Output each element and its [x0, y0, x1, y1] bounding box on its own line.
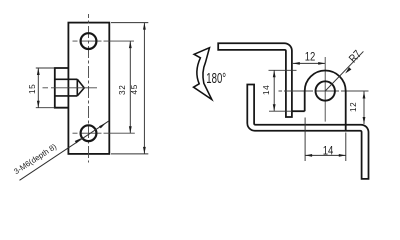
svg-text:32: 32: [118, 85, 127, 95]
lobe vertical centerline: [324, 57, 326, 122]
dim 12 top line: [293, 62, 325, 64]
lobe hole: [316, 81, 335, 100]
dim 14 bottom arrows: [305, 154, 346, 157]
top hole: [81, 33, 97, 49]
short leg under lobe left: [292, 110, 305, 112]
dim 12 top arrows: [293, 62, 325, 65]
main bracket: left strip with cap, bottom leg, right bend strip with cap: [247, 85, 368, 179]
svg-text:45: 45: [130, 84, 139, 94]
dim 15 arrows: [37, 68, 40, 108]
tapped hole horizontal centerline: [43, 87, 98, 89]
dim 32 line: [129, 41, 131, 133]
svg-text:14: 14: [323, 145, 334, 158]
lobe right edge extension line down: [345, 133, 347, 162]
R7 arrowhead: [345, 67, 351, 73]
dim 14 bottom line: [305, 154, 346, 156]
svg-text:180°: 180°: [206, 70, 226, 87]
lobe horizontal centerline extended right (ext for dim 12 right): [279, 90, 369, 92]
svg-text:12: 12: [349, 102, 358, 112]
plate vertical centerline: [88, 14, 90, 163]
dim 12 right arrows: [363, 92, 366, 125]
side tab (boss) on left edge: [55, 68, 69, 108]
dim 14 mid extension lines: [269, 70, 297, 111]
svg-text:12: 12: [305, 51, 316, 64]
180 deg rotation arrow: [194, 48, 212, 100]
dim 15 line: [37, 68, 39, 108]
leader line 3-M6: [20, 121, 110, 181]
dim 14 mid line: [273, 70, 275, 111]
leader arrowhead: [75, 123, 106, 143]
svg-text:15: 15: [28, 84, 37, 94]
dim 45 line: [143, 23, 145, 154]
dim 45 extension lines: [111, 23, 148, 154]
lobe: tab face with R7 rounded end: [305, 71, 346, 131]
R7 leader line: [325, 51, 363, 91]
bottom hole: [81, 125, 97, 141]
dim 32 arrows: [129, 41, 132, 133]
top hole centerline + extension line for dim 32: [73, 40, 135, 42]
svg-text:R7: R7: [347, 48, 364, 65]
svg-text:14: 14: [262, 85, 271, 95]
dim 12 right line: [363, 92, 365, 125]
flipped tab: top bar bending down at right: [218, 43, 292, 117]
dim 15 extension lines: [36, 68, 55, 108]
dim 45 arrows: [143, 23, 146, 154]
bottom hole centerline + extension line for dim 32: [73, 132, 135, 134]
tapped hole M6 side profile with drill point: [55, 79, 84, 96]
plate outline: [68, 23, 109, 154]
dim 14 mid arrows: [273, 70, 276, 111]
lobe left edge extension line down: [304, 118, 306, 162]
